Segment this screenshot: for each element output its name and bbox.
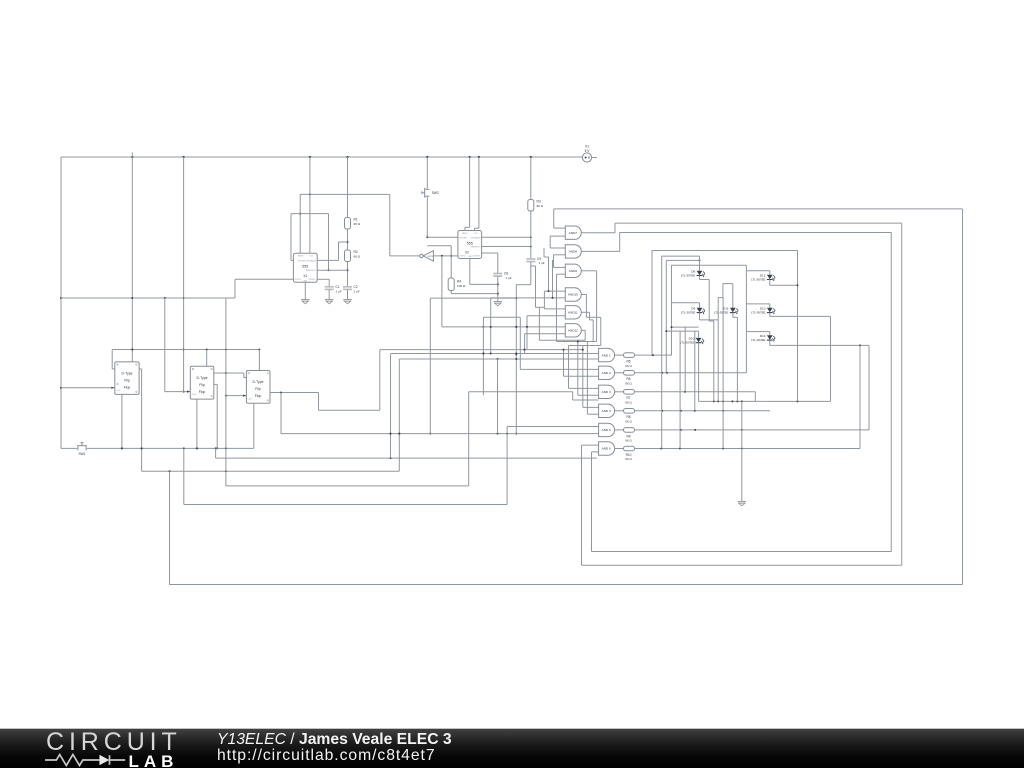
and-gate AND11 bbox=[565, 306, 581, 319]
ground bbox=[738, 401, 746, 505]
wire led cluster top 3 bbox=[666, 259, 700, 372]
ground bbox=[494, 302, 502, 306]
wire AND10 out drop bbox=[581, 295, 600, 346]
wire outer loop bbox=[170, 209, 963, 585]
wire X2 gnd elbow bbox=[470, 259, 498, 285]
wire FF1 D feed bbox=[131, 157, 133, 362]
wire led cluster top 2 bbox=[662, 256, 700, 448]
wire X1 RESET drop bbox=[299, 194, 301, 253]
wire led cluster top 4 bbox=[672, 265, 747, 303]
and-gate AND3 bbox=[599, 385, 615, 398]
wire X1 VCC drop bbox=[309, 157, 311, 253]
wire FF2 clock feed vertical bbox=[183, 157, 185, 393]
inverter NOT1 bbox=[390, 251, 458, 261]
wire row3 bbox=[635, 391, 756, 402]
wire col2 input feeds 1 bbox=[391, 353, 599, 355]
flip-flop FF2 bbox=[190, 366, 214, 399]
resistor R9 bbox=[615, 428, 635, 443]
led D8 bbox=[681, 256, 714, 401]
flip-flop FF1 bbox=[115, 362, 139, 395]
wire X1 output bus bbox=[61, 297, 235, 299]
wire col2 input feeds 2 bbox=[399, 358, 598, 360]
and-gate AND6 bbox=[599, 442, 615, 455]
wire FF3 top pin bbox=[258, 350, 260, 371]
capacitor C9 bbox=[526, 257, 544, 285]
led D13 bbox=[746, 304, 830, 402]
led D9 bbox=[672, 298, 719, 402]
wire NOT branch down bbox=[441, 256, 443, 327]
led D11 bbox=[714, 307, 739, 402]
wire D11 staple bbox=[718, 284, 733, 449]
wire FF2 top pin bbox=[206, 350, 208, 367]
wire FF2 Q to FF3 bbox=[214, 372, 247, 378]
wire row4 bbox=[635, 410, 771, 412]
wire ladder stair c bbox=[531, 266, 536, 307]
wire row6 bbox=[635, 448, 861, 450]
wire long q line bbox=[142, 359, 401, 472]
led D12 bbox=[746, 251, 798, 402]
wire led cluster top 1 bbox=[652, 251, 798, 356]
resistor R1 bbox=[345, 157, 361, 250]
wire X1 control to C1 bbox=[317, 279, 329, 286]
wire FF1 Q out bbox=[139, 369, 143, 471]
and-gate AND10 bbox=[565, 288, 581, 301]
resistor R6 bbox=[615, 371, 635, 386]
wire FF top bus bbox=[112, 349, 260, 369]
and-gate AND4 bbox=[599, 404, 615, 417]
wire loop2 right bbox=[582, 223, 902, 565]
wire G2a feed bbox=[520, 368, 598, 370]
capacitor C1 bbox=[325, 285, 342, 299]
wire loop3 right bbox=[592, 233, 892, 552]
wire FF1 clock line bbox=[61, 387, 115, 389]
wire led return rail bbox=[699, 400, 831, 402]
wire AND11 out drop bbox=[581, 312, 593, 341]
wire mesh feeder rows bbox=[469, 341, 601, 415]
wire FF3 clock line bbox=[225, 395, 247, 397]
wire ladder stair d bbox=[544, 248, 550, 292]
wire sw bus down bbox=[184, 427, 507, 505]
wire row5 bbox=[635, 429, 870, 431]
switch SW1 bbox=[61, 443, 254, 456]
555 timer X2 bbox=[458, 231, 482, 259]
resistor R2 bbox=[345, 250, 361, 287]
wire X1 gnd pin bbox=[304, 282, 306, 299]
wire 555 X1 reset/vcc link bbox=[300, 193, 390, 195]
and-gate AND7 bbox=[565, 226, 581, 239]
flip-flop FF3 bbox=[246, 371, 270, 404]
wire X1 discharge elbow bbox=[317, 242, 347, 260]
wire X2 threshold bbox=[482, 246, 532, 248]
wire X1 threshold bbox=[317, 269, 347, 271]
resistor R5 bbox=[615, 353, 635, 368]
capacitor C2 bbox=[343, 285, 360, 299]
wire SW2 to R4 bbox=[427, 246, 452, 278]
wire FF1 bottom pin bbox=[121, 394, 123, 449]
wire X2 trigger bbox=[427, 236, 458, 238]
wire X2 discharge bbox=[482, 236, 532, 238]
resistor R7 bbox=[615, 390, 635, 405]
wire ladder v 483 bbox=[482, 317, 520, 395]
wire NOT output riser bbox=[389, 194, 391, 256]
and-gate AND5 bbox=[599, 423, 615, 436]
wire AND8 output loop bbox=[581, 233, 891, 252]
wire ff3 bus riser bbox=[226, 298, 469, 486]
wire AND12 out drop bbox=[536, 307, 586, 340]
wire ladder stair b bbox=[429, 298, 516, 435]
wire X2 control to C8 bbox=[482, 253, 498, 273]
wire AND7 output loop top bbox=[581, 223, 901, 233]
led D10 bbox=[680, 331, 705, 401]
555 timer X1 bbox=[293, 253, 317, 282]
wire long qbar line bbox=[216, 448, 597, 459]
resistor R3 bbox=[528, 157, 544, 259]
wire FF2 clock line bbox=[165, 298, 191, 393]
wire ladder stair a bbox=[515, 285, 531, 435]
capacitor C8 bbox=[493, 272, 511, 302]
and-gate AND9 bbox=[565, 264, 581, 277]
wire X2 reset feed bbox=[465, 157, 470, 231]
wire AND gate ladder stairs col1 bbox=[524, 236, 566, 353]
led D14 bbox=[746, 332, 869, 449]
wire left rail bbox=[60, 157, 62, 448]
wire ladder v 497 bbox=[497, 359, 499, 434]
wire AND7 input a loop bbox=[554, 209, 566, 228]
resistor R4 bbox=[448, 278, 498, 294]
and-gate AND1 bbox=[599, 348, 615, 361]
and-gate AND12 bbox=[565, 324, 581, 337]
wire FF3 bottom pin bbox=[253, 403, 255, 448]
wire X1 output to bus bbox=[235, 279, 293, 298]
ground bbox=[325, 300, 333, 304]
switch SW2 bbox=[422, 157, 439, 238]
and-gate AND8 bbox=[565, 245, 581, 258]
resistor R10 bbox=[615, 446, 635, 461]
wire top supply bus bbox=[61, 153, 583, 159]
wire stair riser bbox=[390, 354, 392, 458]
voltage source V1 bbox=[582, 145, 597, 163]
ground bbox=[343, 300, 351, 304]
wire FF2 Qbar down bbox=[214, 384, 218, 449]
resistor R8 bbox=[615, 409, 635, 424]
wire ladder stair e bbox=[552, 260, 554, 299]
wire row1 bbox=[635, 354, 672, 356]
wire FF3 Qbar to AND5 b bbox=[281, 393, 599, 435]
wire X2 vcc feed bbox=[475, 157, 479, 231]
ground bbox=[301, 300, 309, 304]
wire FF2 bottom pin bbox=[196, 399, 198, 449]
wire G5a feed bbox=[507, 426, 598, 428]
wire D10 anode mesh bbox=[665, 303, 698, 449]
and-gate AND2 bbox=[599, 366, 615, 379]
wire G6a feed bbox=[442, 326, 565, 328]
wire X1 feedback wrap bbox=[291, 214, 330, 272]
wire G4b feed ladder bbox=[490, 298, 566, 355]
wire FF3 Q loop to AND bus bbox=[270, 350, 583, 411]
wire right cluster left side bbox=[745, 265, 747, 373]
wire row2 bbox=[635, 372, 747, 374]
wire AND9 out drop bbox=[581, 271, 596, 342]
